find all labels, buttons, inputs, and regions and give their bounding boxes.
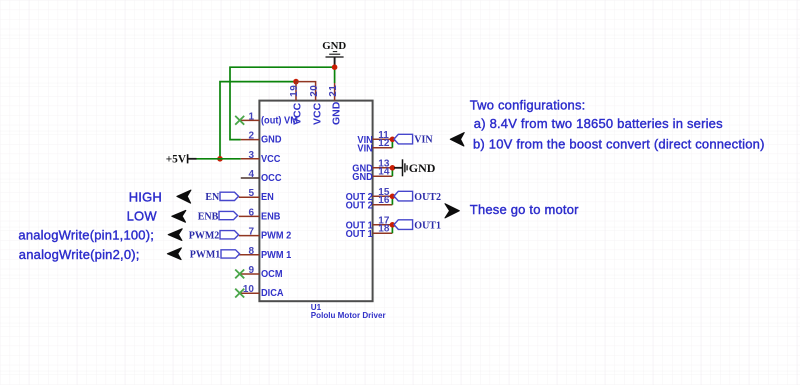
- svg-text:18: 18: [378, 224, 390, 235]
- ground symbol GND (top): [322, 40, 346, 67]
- svg-text:3: 3: [248, 150, 254, 161]
- svg-text:VCC: VCC: [292, 102, 304, 125]
- svg-text:1: 1: [248, 111, 254, 122]
- svg-text:OCM: OCM: [261, 269, 283, 281]
- svg-text:5: 5: [248, 188, 254, 199]
- pin 19 VCC (top): [289, 82, 304, 125]
- svg-text:14: 14: [378, 167, 390, 178]
- svg-text:OUT 2: OUT 2: [346, 200, 374, 212]
- wire VCC net: pin19 to left and down to +5V rail: [220, 82, 296, 159]
- pin 15 OUT 2: [346, 187, 393, 203]
- pin 7 PWM 2: [239, 227, 292, 242]
- svg-text:GND: GND: [409, 161, 436, 175]
- pin 2 GND: [241, 131, 282, 146]
- pin 5 EN: [239, 188, 274, 203]
- svg-text:2: 2: [248, 131, 254, 142]
- note LOW: [127, 208, 158, 223]
- svg-text:19: 19: [289, 85, 300, 97]
- svg-text:EN: EN: [205, 192, 220, 203]
- no-connect X pin 10: [235, 289, 244, 298]
- pin 20 VCC (top): [309, 85, 324, 125]
- pin 14 GND: [352, 167, 392, 183]
- net flag PWM1: [190, 250, 240, 261]
- pin 16 OUT 2: [346, 195, 393, 211]
- note HIGH: [129, 190, 162, 205]
- svg-text:PWM 2: PWM 2: [261, 230, 292, 242]
- svg-text:PWM 1: PWM 1: [261, 249, 292, 261]
- pin 12 VIN: [357, 138, 392, 154]
- no-connect X pin 1: [235, 116, 244, 125]
- svg-text:VIN: VIN: [357, 143, 372, 155]
- wire tie pins 15-16: [391, 196, 393, 204]
- svg-text:+5V: +5V: [166, 154, 187, 166]
- svg-text:GND: GND: [322, 40, 346, 52]
- svg-text:OUT2: OUT2: [414, 192, 441, 203]
- svg-text:analogWrite(pin1,100);: analogWrite(pin1,100);: [18, 228, 154, 243]
- svg-text:HIGH: HIGH: [129, 190, 162, 205]
- svg-text:VCC: VCC: [261, 153, 280, 165]
- pin 3 VCC: [241, 150, 281, 165]
- arrow at motor note: [445, 204, 459, 218]
- svg-text:PWM1: PWM1: [190, 250, 221, 261]
- net flag EN: [205, 192, 238, 203]
- svg-text:6: 6: [248, 207, 254, 218]
- svg-text:These go to motor: These go to motor: [470, 202, 579, 217]
- pin 18 OUT 1: [346, 224, 393, 240]
- junction on +5V rail: [217, 156, 223, 162]
- arrow at ENB: [172, 210, 186, 222]
- junction at GND symbol: [332, 64, 338, 70]
- pin 4 OCC: [241, 169, 282, 184]
- pin 9 OCM: [241, 265, 283, 280]
- junction at pin 13: [390, 165, 396, 171]
- wire GND net: junction down to pin 21: [334, 67, 336, 83]
- wire tie pins 13-14: [391, 168, 393, 176]
- net flag OUT2: [394, 191, 441, 203]
- svg-text:OUT 1: OUT 1: [346, 228, 374, 240]
- pin 17 OUT 1: [346, 215, 393, 231]
- pin 6 ENB: [239, 207, 281, 222]
- arrow at PWM2: [168, 229, 182, 241]
- svg-text:20: 20: [309, 85, 320, 97]
- svg-text:DICA: DICA: [261, 288, 284, 300]
- wire GND net: top junction to left: [230, 67, 335, 139]
- svg-text:LOW: LOW: [127, 208, 158, 223]
- svg-text:VIN: VIN: [414, 135, 433, 146]
- svg-text:GND: GND: [352, 171, 373, 183]
- IC U1 body: [259, 101, 386, 320]
- svg-text:Pololu Motor Driver: Pololu Motor Driver: [311, 310, 387, 320]
- svg-text:10: 10: [243, 284, 255, 295]
- junction at pin 15: [390, 194, 396, 200]
- arrow at EN: [177, 190, 191, 203]
- svg-text:PWM2: PWM2: [189, 231, 220, 242]
- net flag PWM2: [189, 231, 239, 242]
- net flag OUT1: [394, 220, 441, 232]
- svg-text:9: 9: [248, 265, 254, 276]
- svg-text:a) 8.4V from two 18650 batteri: a) 8.4V from two 18650 batteries in seri…: [474, 116, 723, 131]
- note analogWrite(pin1,100);: [18, 228, 154, 243]
- wire tie pins 11-12: [391, 139, 393, 147]
- junction at pin 19: [293, 79, 299, 85]
- pin 21 GND (top): [328, 83, 342, 125]
- wire +5V to pin 3: [197, 158, 241, 160]
- note Two configurations: [470, 98, 586, 113]
- junction at pin 11: [390, 137, 396, 143]
- net flag ENB: [198, 211, 238, 222]
- pin 11 VIN: [357, 130, 392, 146]
- svg-text:12: 12: [378, 138, 390, 149]
- wire tie pins 17-18: [391, 225, 393, 233]
- svg-text:21: 21: [328, 85, 339, 97]
- note a) 8.4V: [474, 116, 723, 131]
- svg-text:GND: GND: [261, 134, 282, 146]
- svg-text:analogWrite(pin2,0);: analogWrite(pin2,0);: [19, 247, 140, 262]
- ground symbol GND (right): [394, 159, 436, 176]
- note b) 10V: [473, 136, 765, 151]
- supply symbol +5V: [166, 154, 197, 166]
- svg-text:VCC: VCC: [311, 102, 323, 125]
- pin 8 PWM 1: [239, 246, 292, 261]
- svg-text:OCC: OCC: [261, 173, 282, 185]
- svg-text:4: 4: [248, 169, 254, 180]
- svg-text:ENB: ENB: [261, 211, 280, 223]
- pin 10 DICA: [241, 284, 284, 299]
- note analogWrite(pin2,0);: [19, 247, 140, 262]
- note These go to motor: [470, 202, 579, 217]
- net flag VIN: [394, 134, 433, 145]
- arrow at b): [450, 133, 464, 146]
- svg-text:b) 10V from the boost convert: b) 10V from the boost convert (direct co…: [473, 136, 765, 151]
- pin 1 (out) VM: [241, 111, 298, 126]
- junction at pin 17: [390, 222, 396, 228]
- svg-text:GND: GND: [330, 101, 342, 125]
- svg-text:Two configurations:: Two configurations:: [470, 98, 586, 113]
- svg-text:8: 8: [248, 246, 254, 257]
- svg-text:16: 16: [378, 195, 390, 206]
- wire pin19 to pin20: [296, 82, 316, 101]
- no-connect X pin 9: [235, 270, 244, 279]
- svg-text:OUT1: OUT1: [414, 220, 441, 231]
- pin 13 GND: [352, 158, 392, 174]
- svg-text:ENB: ENB: [198, 211, 219, 222]
- svg-text:EN: EN: [261, 192, 274, 204]
- arrow at PWM1: [167, 248, 181, 260]
- svg-text:7: 7: [248, 227, 254, 238]
